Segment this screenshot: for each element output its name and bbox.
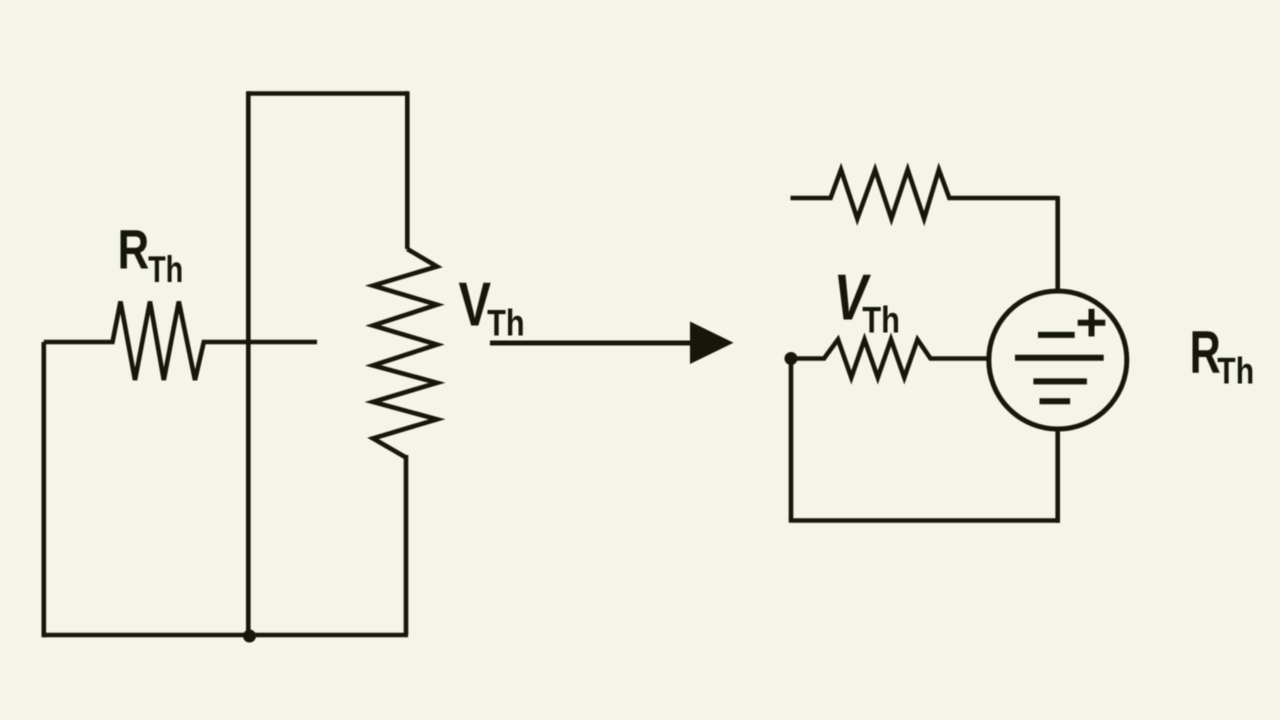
- svg-text:R: R: [118, 218, 150, 280]
- plus polarity mark: [1078, 309, 1106, 337]
- label RTh (right side): [1190, 320, 1255, 392]
- svg-text:Th: Th: [487, 303, 525, 344]
- svg-text:R: R: [1190, 320, 1221, 387]
- battery plates inside source: [1015, 335, 1104, 401]
- wire below resistor R1: [404, 455, 409, 635]
- resistor VTh (horizontal zigzag, right circuit) with leads: [791, 340, 988, 378]
- wire left vertical (right circuit): [789, 359, 794, 521]
- wire top horizontal (left circuit): [248, 91, 408, 96]
- resistor R2 (top zigzag, right circuit) with leads: [791, 170, 1058, 219]
- svg-text:Th: Th: [862, 300, 900, 341]
- resistor RTh (horizontal zigzag) with leads: [44, 302, 317, 381]
- wire bottom horizontal (left circuit): [44, 633, 408, 638]
- label VTh (right circuit, italic V): [834, 261, 900, 341]
- junction node (bottom of left circuit): [243, 630, 256, 643]
- wire right vertical below source: [1055, 431, 1060, 523]
- label RTh (left circuit): [118, 218, 184, 291]
- wire bottom horizontal (right circuit): [789, 518, 1060, 523]
- resistor R1 (vertical zigzag, load resistor): [373, 249, 437, 458]
- arrow (transformation arrow): [490, 322, 734, 365]
- svg-text:Th: Th: [1217, 351, 1254, 393]
- wire inner-left vertical (left circuit): [246, 91, 251, 635]
- wire right vertical to source top: [1055, 196, 1060, 290]
- node A (left node of right circuit): [785, 352, 798, 365]
- svg-text:Th: Th: [148, 250, 183, 291]
- wire outer-left vertical (left circuit): [41, 342, 46, 637]
- wire right vertical upper segment: [405, 91, 410, 249]
- voltage source VS (circle): [989, 291, 1127, 429]
- svg-text:V: V: [459, 269, 492, 339]
- label VTh (left circuit): [459, 269, 525, 345]
